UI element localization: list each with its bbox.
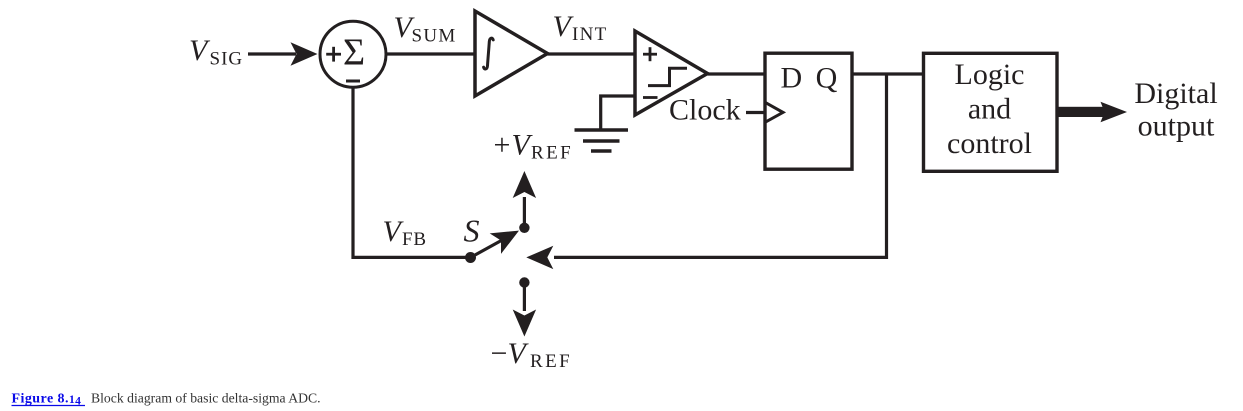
comparator U2 triangle [635, 31, 708, 115]
label Digital output [1134, 77, 1217, 143]
svg-text:INT: INT [572, 24, 608, 45]
wire and arrow down to -VREF [513, 283, 536, 337]
clock input chevron [765, 102, 783, 122]
hysteresis symbol [648, 68, 687, 85]
switch lower contact node [519, 277, 529, 287]
switch lever with arrowhead [471, 231, 520, 258]
wire and arrow up to +VREF [513, 171, 536, 228]
svg-text:Clock: Clock [669, 94, 741, 127]
svg-text:−: − [491, 337, 508, 370]
label VINT [553, 10, 608, 45]
caption figure link [12, 392, 86, 408]
label -VREF [491, 337, 573, 372]
svg-text:S: S [464, 213, 480, 249]
D flip-flop U3 box [765, 53, 852, 169]
wire comparator output to flip-flop D [708, 72, 766, 75]
svg-text:SUM: SUM [412, 26, 457, 47]
svg-text:output: output [1138, 110, 1215, 143]
minus sign in summing junction [346, 80, 360, 83]
svg-text:Q: Q [816, 62, 838, 95]
plus input label [643, 47, 657, 61]
minus input label [643, 96, 658, 99]
label +VREF [494, 129, 574, 164]
logic and control box U4 [924, 53, 1058, 171]
wire feedback vertical from Q node [554, 74, 887, 257]
arrowhead into summing junction [291, 42, 318, 65]
svg-text:V: V [508, 337, 530, 370]
integral symbol [484, 38, 494, 69]
svg-text:D: D [781, 62, 803, 95]
svg-text:Logic: Logic [955, 58, 1025, 91]
ground [575, 130, 629, 151]
svg-text:Block diagram of basic delta-s: Block diagram of basic delta-sigma ADC. [91, 391, 321, 406]
label VSUM [394, 11, 457, 47]
switch upper contact node [519, 223, 529, 233]
svg-text:and: and [968, 93, 1011, 126]
thick digital output arrow [1057, 102, 1127, 122]
wire summing junction down to switch pole [353, 87, 471, 257]
svg-text:FB: FB [402, 229, 427, 250]
svg-text:Σ: Σ [343, 32, 365, 74]
svg-text:V: V [189, 34, 211, 67]
svg-text:+: + [494, 129, 511, 162]
svg-text:REF: REF [531, 143, 573, 164]
arrowhead feedback into switch [526, 246, 553, 269]
op-amp integrator A1 triangle [475, 11, 548, 96]
wire summing junction to integrator [386, 52, 476, 55]
summing junction U1 circle [320, 21, 386, 87]
wire input signal [248, 52, 296, 55]
label VSIG [189, 34, 243, 69]
wire clock stub [746, 111, 765, 114]
switch pole node [465, 252, 476, 263]
plus sign in summing junction [326, 47, 341, 62]
svg-text:Digital: Digital [1134, 77, 1217, 110]
label Logic and control [947, 58, 1032, 160]
svg-text:REF: REF [530, 351, 572, 372]
svg-text:SIG: SIG [210, 48, 244, 69]
wire comparator minus input [601, 96, 636, 130]
wire integrator to comparator [548, 52, 637, 55]
svg-text:control: control [947, 127, 1032, 160]
wire flip-flop Q to logic box [852, 72, 924, 75]
label VFB [383, 215, 427, 250]
